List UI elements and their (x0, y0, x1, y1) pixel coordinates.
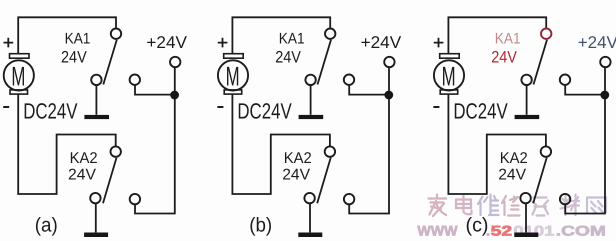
svg-text:.COM: .COM (556, 223, 606, 239)
svg-text:KA1: KA1 (65, 31, 91, 48)
svg-text:24V: 24V (491, 47, 517, 66)
svg-text:KA1: KA1 (279, 31, 305, 48)
svg-text:+24V: +24V (146, 33, 187, 52)
svg-text:KA1: KA1 (495, 31, 521, 48)
svg-text:24V: 24V (275, 47, 301, 66)
svg-text:(c): (c) (466, 215, 489, 237)
svg-text:24V: 24V (61, 47, 87, 66)
svg-text:+24V: +24V (361, 33, 402, 52)
svg-text:52: 52 (491, 223, 513, 239)
svg-text:(a): (a) (35, 215, 58, 237)
svg-text:(b): (b) (249, 215, 272, 237)
svg-text:WWW: WWW (417, 223, 458, 239)
svg-text:+24V: +24V (578, 33, 616, 52)
